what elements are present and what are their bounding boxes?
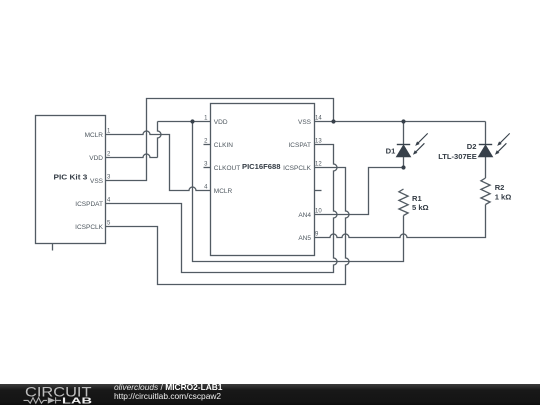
LED D1 [397, 133, 428, 156]
svg-text:R2: R2 [495, 183, 505, 192]
svg-text:VSS: VSS [298, 119, 312, 126]
svg-text:2: 2 [204, 139, 208, 145]
wire VSS row: chip pin14 to D2 top [315, 121, 486, 123]
svg-text:10: 10 [315, 209, 322, 215]
svg-text:9: 9 [315, 232, 319, 238]
svg-text:1: 1 [204, 116, 208, 122]
svg-text:LTL-307EE: LTL-307EE [438, 152, 477, 161]
node VSS dot left [331, 119, 335, 123]
svg-text:D2: D2 [467, 142, 477, 151]
wire D1 top lead [403, 122, 405, 145]
svg-text:ICSPAT: ICSPAT [288, 142, 311, 149]
wire PICKit VDD pin2 horizontal with hop [106, 154, 158, 157]
wire MCLR net: PICKit pin1 to chip pin4 with hops [106, 131, 211, 191]
pin stub CLKIN 2 [204, 144, 211, 146]
svg-text:AN5: AN5 [298, 235, 311, 242]
svg-text:VSS: VSS [90, 178, 104, 185]
svg-text:14: 14 [315, 116, 322, 122]
svg-text:1 kΩ: 1 kΩ [495, 193, 512, 202]
svg-text:4: 4 [107, 198, 111, 204]
svg-text:3: 3 [204, 162, 208, 168]
svg-text:5: 5 [107, 221, 111, 227]
resistor R2 zigzag [481, 178, 490, 205]
wire AN4 net: chip pin10 to D1/R1 junction [315, 168, 404, 215]
svg-text:LAB: LAB [62, 396, 92, 405]
svg-text:ICSPCLK: ICSPCLK [75, 224, 103, 231]
svg-text:CLKOUT: CLKOUT [214, 165, 240, 172]
svg-text:ICSPDAT: ICSPDAT [75, 201, 103, 208]
svg-text:R1: R1 [412, 194, 422, 203]
wire AN5 net: chip pin9 to R2 bottom with hops [315, 205, 486, 238]
svg-text:MCLR: MCLR [214, 188, 233, 195]
svg-text:VDD: VDD [214, 119, 228, 126]
wire ICSPDAT net: PICKit pin4 via row B to chip pin13 with hops [106, 145, 338, 273]
svg-text:13: 13 [315, 139, 322, 145]
PIC Kit 3 box [36, 116, 106, 244]
wire VDD vertical, row A, R1 bottom lead [193, 122, 404, 262]
pin labels [75, 119, 311, 242]
wire D2 top lead [485, 122, 487, 145]
node VSS dot at D1 [401, 119, 405, 123]
junction dots [190, 119, 405, 169]
svg-text:1: 1 [107, 129, 111, 135]
svg-text:D1: D1 [386, 147, 396, 156]
PIC Kit 3 bottom stub [52, 244, 54, 251]
resistor R1 zigzag [399, 189, 408, 216]
svg-text:12: 12 [315, 162, 322, 168]
node VDD dot [190, 119, 194, 123]
wire PICKit VDD vertical with hop [158, 122, 162, 158]
pin stub 11 [315, 190, 322, 192]
svg-text:5 kΩ: 5 kΩ [412, 203, 429, 212]
CircuitLab logo [25, 385, 92, 405]
svg-text:CLKIN: CLKIN [214, 142, 233, 149]
wire ICSPCLK net: PICKit pin5 via row C to chip pin12 with hops [106, 168, 350, 285]
svg-text:AN4: AN4 [298, 212, 311, 219]
svg-text:PIC Kit 3: PIC Kit 3 [54, 173, 88, 182]
svg-text:PIC16F688: PIC16F688 [242, 162, 280, 171]
svg-text:2: 2 [107, 152, 111, 158]
svg-text:ICSPCLK: ICSPCLK [283, 165, 311, 172]
svg-text:4: 4 [204, 185, 208, 191]
bottom credit bar [0, 384, 540, 405]
wire VDD row to chip pin1 [158, 121, 211, 123]
svg-text:VDD: VDD [89, 155, 103, 162]
svg-text:MCLR: MCLR [85, 132, 104, 139]
wire D2 bottom lead [485, 157, 487, 179]
LED D2 [479, 133, 510, 156]
wire VSS net: PICKit pin3 over top loop to chip VSS [106, 99, 334, 181]
PIC16F688 box [211, 104, 315, 256]
pin numbers [107, 116, 322, 238]
node D1/R1 junction dot [401, 165, 405, 169]
svg-text:3: 3 [107, 175, 111, 181]
component labels [54, 142, 512, 212]
wire D1 bottom lead [403, 157, 405, 168]
pin stub CLKOUT 3 [204, 167, 211, 169]
